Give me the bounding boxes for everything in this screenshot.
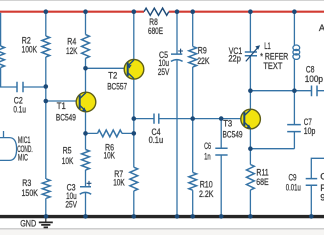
svg-text:BC557: BC557 — [107, 82, 127, 92]
top border line — [0, 0, 324, 2]
wire column C5 — [176, 12, 178, 216]
svg-text:T3: T3 — [223, 119, 232, 129]
svg-text:MIC: MIC — [18, 152, 28, 162]
capacitor C4 — [154, 114, 159, 124]
resistor R2 — [42, 36, 50, 57]
svg-text:TEXT: TEXT — [263, 61, 282, 71]
wire column VC1/T3/R11 — [249, 12, 251, 216]
resistor R7 — [130, 167, 138, 191]
wire R4/T1 node to T2 base — [86, 67, 128, 69]
svg-text:0.1u: 0.1u — [13, 104, 26, 114]
svg-text:10K: 10K — [104, 151, 116, 161]
svg-text:2.2K: 2.2K — [199, 189, 214, 199]
wire column T2/R7 — [133, 12, 135, 216]
ground rail — [0, 215, 324, 218]
svg-text:10K: 10K — [113, 177, 125, 187]
svg-text:100K: 100K — [22, 45, 38, 55]
wire column C6 — [220, 119, 222, 216]
resistor R11 — [247, 165, 255, 191]
wire tank line — [250, 90, 324, 92]
svg-text:C: C — [320, 171, 324, 181]
capacitor C3 (electrolytic) — [80, 187, 92, 194]
svg-text:R5: R5 — [63, 145, 72, 155]
svg-text:100p: 100p — [305, 74, 323, 84]
microphone MIC1 (clipped) — [0, 138, 17, 161]
svg-text:9: 9 — [320, 192, 324, 202]
ground symbol — [45, 218, 47, 221]
svg-text:GND: GND — [20, 218, 36, 228]
svg-text:A: A — [319, 23, 324, 33]
resistor R9 — [189, 46, 197, 67]
transistor T3 BC549 — [241, 109, 261, 129]
svg-text:10K: 10K — [62, 156, 74, 166]
svg-text:25V: 25V — [158, 67, 170, 77]
resistor R6 — [98, 130, 123, 137]
capacitor C8 — [312, 86, 318, 97]
svg-text:12K: 12K — [66, 46, 78, 56]
svg-text:R10: R10 — [200, 179, 213, 189]
resistor R8 (in series with rail) — [144, 8, 169, 15]
wire R6 row — [86, 132, 134, 134]
svg-text:P: P — [320, 183, 324, 193]
svg-text:22K: 22K — [197, 56, 210, 66]
wire T1 base — [46, 100, 80, 102]
junction dots — [44, 9, 49, 14]
svg-text:22p: 22p — [228, 53, 241, 63]
wire column R9/R10 — [192, 12, 194, 216]
wire column R2/R3 — [45, 12, 47, 216]
variable capacitor VC1 — [245, 52, 257, 56]
capacitor C9 — [306, 179, 318, 186]
Vcc rail (red) — [0, 11, 324, 13]
svg-text:0.01u: 0.01u — [286, 182, 301, 192]
svg-text:T1: T1 — [57, 101, 66, 111]
resistor R10 — [189, 172, 197, 190]
resistor R1 (clipped at left edge) — [0, 13, 2, 46]
svg-text:R3: R3 — [22, 178, 31, 188]
capacitor C6 — [215, 148, 227, 155]
svg-text:680E: 680E — [148, 26, 163, 36]
svg-text:C8: C8 — [306, 64, 315, 74]
resistor R4 — [82, 35, 90, 59]
wire audio line — [134, 118, 245, 120]
transistor T2 BC557 — [124, 60, 144, 80]
svg-text:0.1u: 0.1u — [149, 135, 164, 145]
capacitor C7 — [287, 125, 301, 132]
svg-text:25V: 25V — [65, 199, 77, 209]
capacitor C5 (electrolytic) — [171, 54, 183, 61]
svg-text:BC549: BC549 — [56, 112, 76, 122]
bottom separator line — [0, 229, 324, 235]
svg-text:L1: L1 — [264, 41, 271, 51]
capacitor C2 — [17, 82, 23, 92]
svg-text:1n: 1n — [204, 152, 211, 162]
svg-text:C6: C6 — [204, 141, 211, 151]
wire T3 emitter to C7 — [250, 148, 294, 150]
svg-text:68E: 68E — [256, 177, 268, 187]
wire C2 row — [0, 86, 46, 88]
svg-text:BC549: BC549 — [223, 130, 243, 140]
svg-text:T2: T2 — [108, 71, 117, 81]
svg-text:R9: R9 — [198, 46, 207, 56]
resistor R3 — [42, 179, 50, 198]
svg-text:10p: 10p — [304, 126, 316, 136]
transistor T1 BC549 — [76, 92, 96, 112]
svg-text:150K: 150K — [22, 188, 39, 198]
svg-text:C9: C9 — [289, 173, 297, 183]
wire column L1/C7 — [293, 12, 295, 149]
wire C9 branch — [311, 158, 324, 216]
wire column R4/T1/R5/C3 — [85, 12, 87, 216]
svg-text:* REFER: * REFER — [260, 51, 288, 61]
resistor R5 — [82, 150, 90, 171]
inductor L1 — [293, 45, 300, 51]
